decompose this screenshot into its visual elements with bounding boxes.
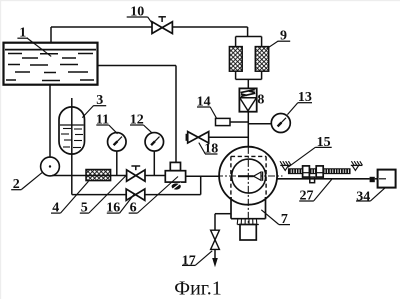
svg-text:6: 6	[130, 201, 137, 216]
svg-text:2: 2	[13, 177, 20, 192]
svg-text:10: 10	[130, 4, 144, 19]
svg-text:Фиг.1: Фиг.1	[174, 278, 221, 299]
svg-text:18: 18	[204, 141, 218, 156]
svg-text:5: 5	[81, 201, 88, 216]
svg-text:12: 12	[130, 112, 144, 127]
svg-text:3: 3	[96, 93, 103, 108]
svg-text:9: 9	[280, 29, 287, 44]
svg-text:4: 4	[52, 201, 59, 216]
svg-text:8: 8	[257, 93, 264, 108]
svg-text:1: 1	[19, 26, 26, 41]
svg-text:11: 11	[96, 112, 109, 127]
svg-text:14: 14	[197, 94, 211, 109]
svg-text:13: 13	[298, 90, 312, 105]
svg-text:16: 16	[106, 201, 120, 216]
svg-text:34: 34	[356, 189, 370, 204]
svg-text:7: 7	[281, 212, 288, 227]
svg-text:27: 27	[300, 188, 314, 203]
svg-text:17: 17	[182, 253, 196, 268]
svg-text:15: 15	[317, 135, 331, 150]
